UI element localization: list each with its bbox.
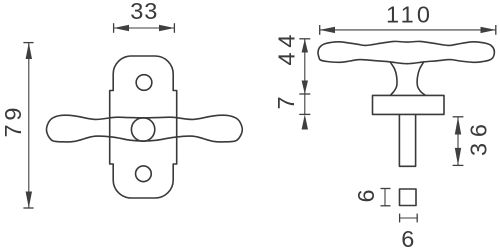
svg-text:7: 7 <box>273 96 299 109</box>
svg-text:6: 6 <box>353 189 379 202</box>
svg-text:110: 110 <box>386 2 430 28</box>
svg-text:33: 33 <box>130 0 157 24</box>
svg-text:36: 36 <box>466 124 492 156</box>
svg-text:44: 44 <box>274 35 300 66</box>
svg-text:79: 79 <box>0 108 26 138</box>
svg-text:6: 6 <box>401 226 414 250</box>
